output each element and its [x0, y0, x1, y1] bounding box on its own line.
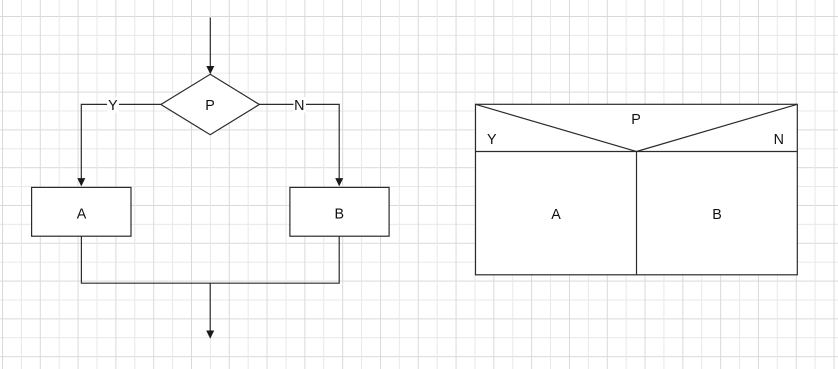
- svg-text:B: B: [712, 207, 722, 223]
- svg-text:P: P: [631, 112, 641, 128]
- svg-text:N: N: [774, 132, 784, 148]
- svg-text:Y: Y: [487, 132, 497, 148]
- svg-text:N: N: [294, 98, 304, 114]
- svg-text:B: B: [335, 206, 345, 222]
- svg-text:P: P: [205, 98, 215, 114]
- svg-text:A: A: [551, 207, 561, 223]
- svg-text:A: A: [77, 206, 87, 222]
- svg-text:Y: Y: [108, 98, 118, 114]
